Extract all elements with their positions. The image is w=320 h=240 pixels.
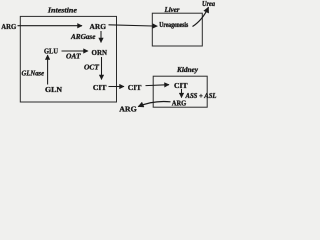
svg-text:GLNase: GLNase (22, 69, 45, 78)
svg-text:Intestine: Intestine (47, 5, 78, 14)
svg-text:OCT: OCT (84, 62, 100, 71)
svg-text:ASS + ASL: ASS + ASL (185, 93, 217, 100)
svg-text:ARG: ARG (90, 22, 107, 31)
svg-text:GLN: GLN (45, 85, 63, 94)
svg-text:CIT: CIT (174, 81, 188, 90)
svg-text:Ureagenesis: Ureagenesis (159, 21, 188, 29)
svg-text:CIT: CIT (128, 83, 142, 92)
svg-text:Kidney: Kidney (176, 65, 199, 74)
svg-text:CIT: CIT (93, 83, 107, 92)
svg-text:OAT: OAT (66, 52, 81, 61)
svg-text:ARG: ARG (119, 105, 137, 114)
svg-text:ARG: ARG (172, 100, 187, 108)
svg-text:Liver: Liver (164, 5, 180, 14)
svg-text:GLU: GLU (44, 47, 59, 56)
svg-text:Urea: Urea (202, 0, 215, 8)
svg-text:ORN: ORN (92, 48, 108, 57)
svg-text:ARGase: ARGase (70, 32, 96, 41)
svg-text:ARG: ARG (1, 22, 16, 31)
